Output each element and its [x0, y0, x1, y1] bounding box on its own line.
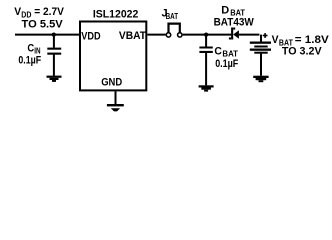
svg-text:0.1µF: 0.1µF: [18, 54, 41, 66]
svg-text:BAT: BAT: [279, 38, 293, 47]
svg-text:D: D: [221, 5, 229, 17]
svg-text:VDD: VDD: [81, 30, 100, 42]
svg-text:DD: DD: [21, 11, 31, 20]
svg-text:= 2.7V: = 2.7V: [34, 6, 64, 18]
svg-text:= 1.8V: = 1.8V: [295, 34, 330, 46]
svg-text:TO 5.5V: TO 5.5V: [22, 18, 64, 30]
svg-text:C: C: [214, 45, 222, 57]
svg-text:IN: IN: [34, 46, 40, 55]
svg-text:0.1µF: 0.1µF: [215, 58, 238, 70]
svg-text:GND: GND: [101, 77, 122, 89]
svg-text:BAT: BAT: [222, 50, 238, 59]
svg-text:BAT43W: BAT43W: [214, 16, 255, 28]
svg-text:BAT: BAT: [166, 12, 179, 21]
svg-text:VBAT: VBAT: [119, 30, 146, 42]
svg-text:ISL12022: ISL12022: [93, 9, 138, 21]
svg-text:BAT: BAT: [230, 9, 245, 18]
